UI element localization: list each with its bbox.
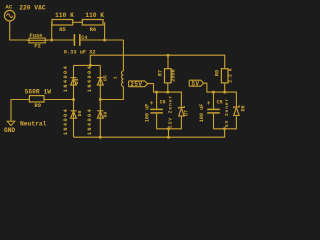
svg-text:100 uF: 100 uF xyxy=(199,104,205,123)
svg-text:AC: AC xyxy=(5,4,12,11)
svg-text:25V: 25V xyxy=(130,81,142,88)
svg-text:200R: 200R xyxy=(170,68,176,81)
svg-text:R6: R6 xyxy=(90,26,97,33)
svg-text:Fuse: Fuse xyxy=(29,32,43,39)
svg-text:1: 1 xyxy=(112,76,118,79)
svg-text:F2: F2 xyxy=(34,42,41,49)
svg-text:1N4004: 1N4004 xyxy=(63,65,69,92)
svg-text:110 K: 110 K xyxy=(85,12,104,19)
svg-text:25V Zener: 25V Zener xyxy=(168,95,174,128)
svg-text:0.33 uF X2: 0.33 uF X2 xyxy=(64,49,96,55)
svg-text:C4: C4 xyxy=(81,35,87,41)
svg-text:D7: D7 xyxy=(184,110,190,116)
svg-text:R8: R8 xyxy=(215,70,221,76)
svg-text:2.2 K: 2.2 K xyxy=(227,68,233,83)
svg-text:220 VAC: 220 VAC xyxy=(19,5,46,12)
svg-text:D4: D4 xyxy=(74,78,80,84)
svg-text:R7: R7 xyxy=(158,70,164,76)
svg-text:D6: D6 xyxy=(241,105,247,111)
svg-text:R5: R5 xyxy=(59,26,66,33)
svg-text:Neutral: Neutral xyxy=(20,120,47,127)
svg-text:560R 1W: 560R 1W xyxy=(25,88,52,95)
svg-text:5V Zener: 5V Zener xyxy=(224,98,230,127)
svg-text:D9: D9 xyxy=(102,112,108,118)
svg-text:GND: GND xyxy=(4,127,15,134)
svg-text:D5: D5 xyxy=(103,75,109,81)
svg-text:1N4004: 1N4004 xyxy=(87,65,93,92)
svg-text:D8: D8 xyxy=(77,110,83,116)
svg-text:C5: C5 xyxy=(217,99,223,105)
svg-text:110 K: 110 K xyxy=(55,12,74,19)
svg-text:1N4004: 1N4004 xyxy=(87,108,93,135)
svg-text:+: + xyxy=(207,100,211,107)
svg-text:5V: 5V xyxy=(191,81,199,88)
svg-text:100 uF: 100 uF xyxy=(144,104,150,123)
svg-text:+: + xyxy=(150,100,154,107)
svg-text:1N4004: 1N4004 xyxy=(63,108,69,135)
svg-text:R9: R9 xyxy=(34,102,41,109)
svg-text:C6: C6 xyxy=(160,99,166,105)
